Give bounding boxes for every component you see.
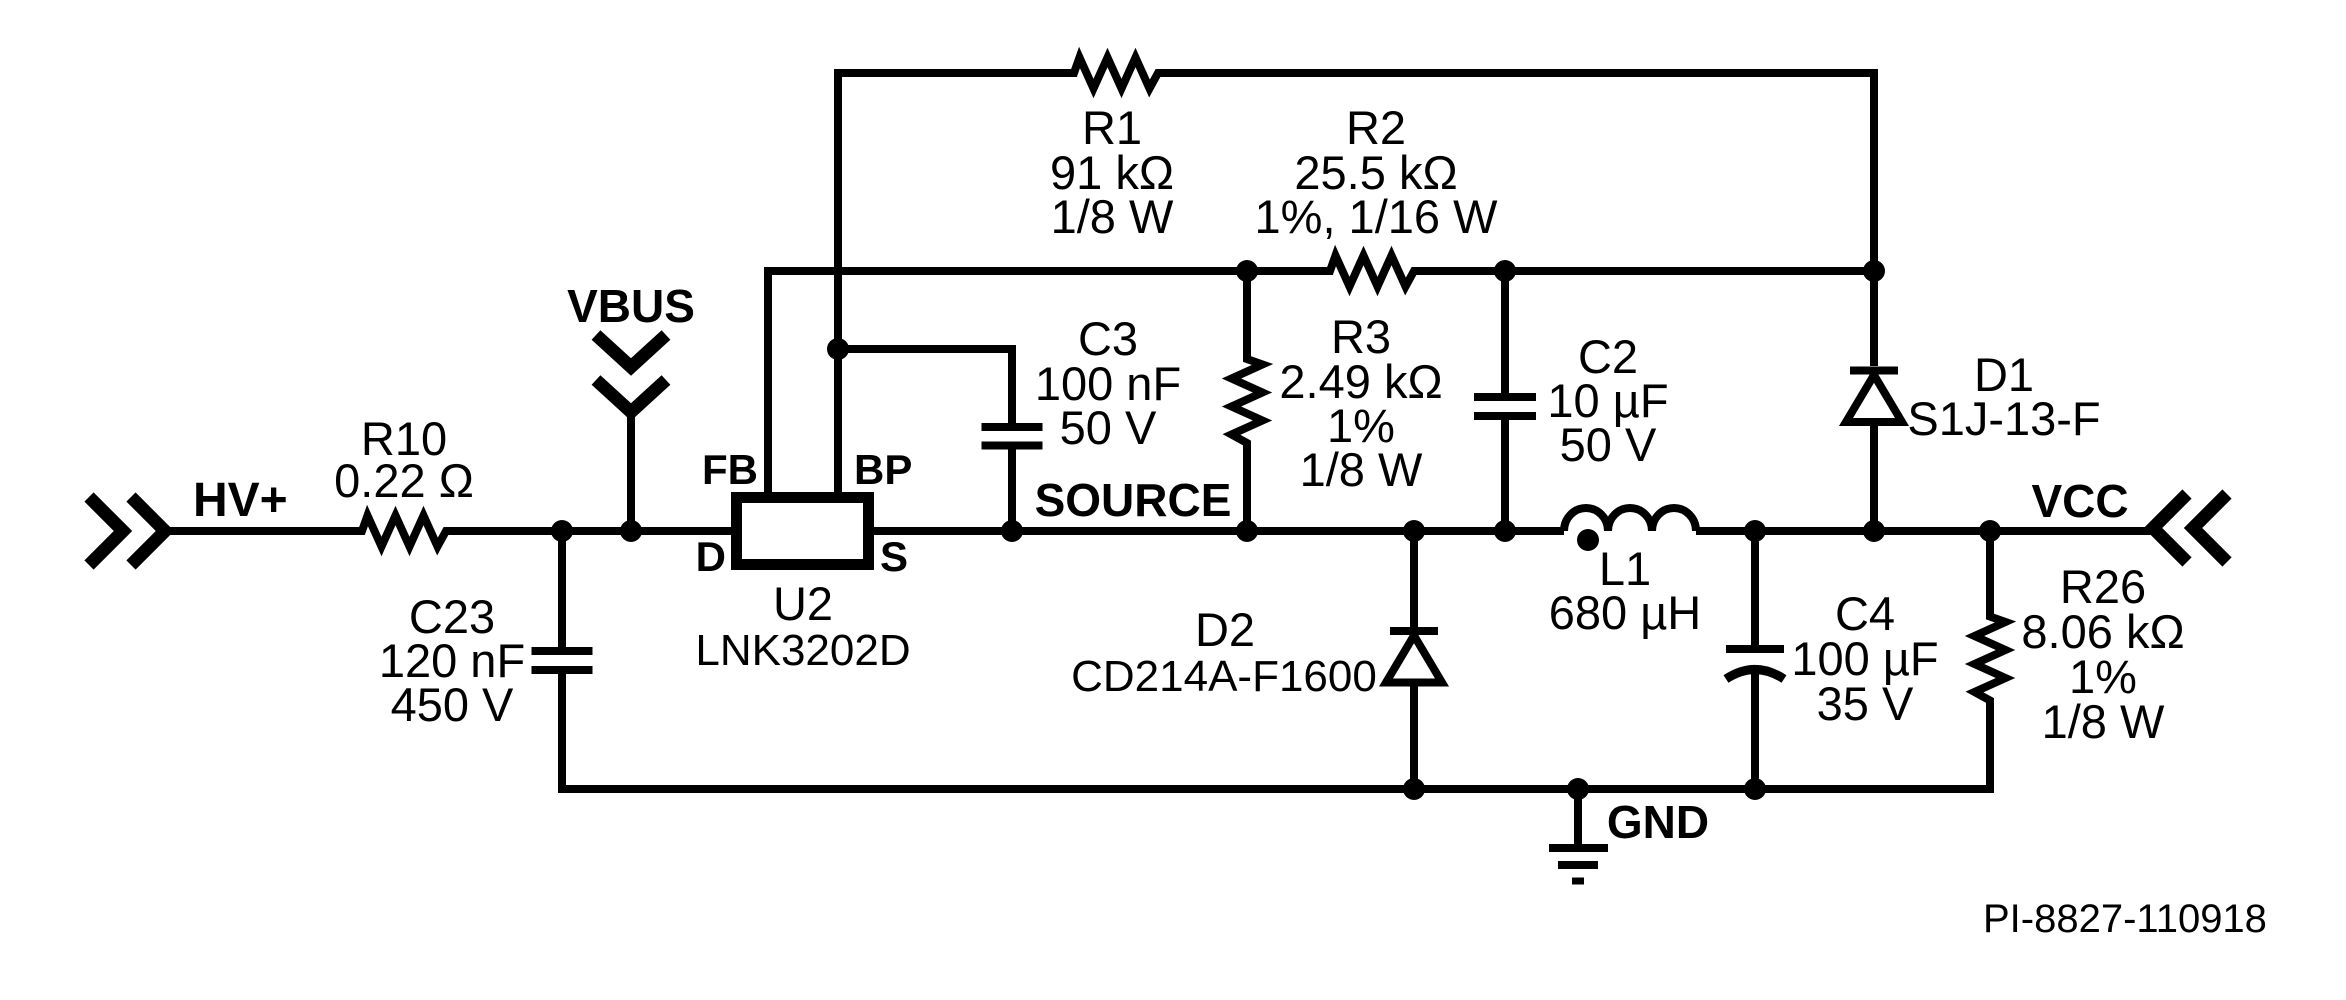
svg-text:0.22 Ω: 0.22 Ω bbox=[334, 454, 474, 507]
node D1 bottom junction bbox=[1863, 520, 1885, 542]
node C4 bottom junction bbox=[1744, 778, 1766, 800]
svg-text:S: S bbox=[880, 533, 908, 580]
node D2 bottom junction bbox=[1403, 778, 1425, 800]
IC U2 LNK3202D body bbox=[737, 498, 869, 565]
wire FB rail right (R2 to D1 node) bbox=[1414, 267, 1874, 275]
svg-text:450 V: 450 V bbox=[391, 678, 514, 731]
svg-text:FB: FB bbox=[702, 446, 758, 493]
resistor R3 bbox=[1232, 357, 1263, 445]
svg-text:BP: BP bbox=[854, 446, 912, 493]
svg-text:PI-8827-110918: PI-8827-110918 bbox=[1983, 897, 2267, 941]
connector VCC output arrows bbox=[2153, 494, 2227, 562]
svg-text:680 µH: 680 µH bbox=[1549, 586, 1702, 639]
wire FB pin and FB rail left (FB to R2) bbox=[768, 271, 1330, 492]
node C2 top junction bbox=[1494, 260, 1516, 282]
svg-text:SOURCE: SOURCE bbox=[1035, 474, 1232, 526]
ground GND symbol bbox=[1549, 789, 1608, 881]
wire D2 anode stem bbox=[1410, 683, 1418, 789]
wire HV+ input to R10 bbox=[168, 527, 362, 535]
node C4 top junction bbox=[1744, 520, 1766, 542]
inductor L1 bbox=[1564, 508, 1696, 531]
svg-text:VBUS: VBUS bbox=[567, 280, 695, 332]
svg-text:GND: GND bbox=[1607, 796, 1709, 848]
svg-text:50 V: 50 V bbox=[1560, 418, 1657, 471]
node R3 bottom junction bbox=[1236, 520, 1258, 542]
svg-text:U2: U2 bbox=[773, 577, 833, 630]
wire VBUS stem bbox=[627, 412, 635, 531]
node VBUS junction bbox=[620, 520, 642, 542]
wire C2 top bbox=[1501, 271, 1509, 397]
wire bottom ground rail bbox=[562, 670, 1990, 789]
svg-text:1%, 1/16 W: 1%, 1/16 W bbox=[1255, 190, 1499, 243]
resistor R10 bbox=[360, 516, 448, 547]
capacitor C3 bbox=[982, 427, 1043, 446]
wire C3 to source node bbox=[1008, 446, 1016, 532]
svg-text:LNK3202D: LNK3202D bbox=[695, 626, 910, 675]
wire C2 bottom bbox=[1501, 416, 1509, 531]
resistor R1 bbox=[1072, 58, 1160, 89]
node D1 top junction bbox=[1863, 260, 1885, 282]
connector HV+ input arrows bbox=[89, 497, 165, 565]
wire source rail (U2 S pin to L1) bbox=[874, 527, 1564, 535]
capacitor C2 bbox=[1474, 397, 1536, 416]
node BP/C3 junction bbox=[827, 338, 849, 360]
node C2 bottom junction bbox=[1494, 520, 1516, 542]
wire BP pin and top rail left (BP to R1) bbox=[838, 73, 1074, 492]
capacitor C23 bbox=[532, 531, 593, 670]
svg-text:1/8 W: 1/8 W bbox=[1051, 190, 1174, 243]
node GND junction bbox=[1567, 778, 1589, 800]
svg-text:35 V: 35 V bbox=[1817, 677, 1914, 730]
node R3 top junction bbox=[1236, 260, 1258, 282]
wire top rail right (R1 to D1 corner) bbox=[1158, 73, 1874, 271]
svg-text:50 V: 50 V bbox=[1060, 401, 1157, 454]
resistor R2 bbox=[1328, 256, 1416, 287]
svg-text:D2: D2 bbox=[1195, 603, 1255, 656]
svg-text:1/8 W: 1/8 W bbox=[1300, 443, 1423, 496]
svg-text:VCC: VCC bbox=[2031, 475, 2128, 527]
svg-text:HV+: HV+ bbox=[193, 474, 288, 527]
svg-text:D: D bbox=[696, 533, 726, 580]
resistor R26 bbox=[1975, 615, 2006, 703]
power VBUS symbol bbox=[596, 335, 666, 412]
wire L1 to VCC bbox=[1696, 527, 2152, 535]
svg-text:S1J-13-F: S1J-13-F bbox=[1907, 392, 2100, 445]
svg-text:1/8 W: 1/8 W bbox=[2042, 695, 2165, 748]
node D2 top junction bbox=[1403, 520, 1425, 542]
wire R26 top bbox=[1986, 531, 1994, 617]
node C23 junction bbox=[551, 520, 573, 542]
capacitor C4 bbox=[1726, 531, 1784, 789]
wire R3 top bbox=[1243, 271, 1251, 359]
svg-text:CD214A-F1600: CD214A-F1600 bbox=[1071, 652, 1377, 701]
wire BP to C3 bbox=[838, 349, 1012, 427]
node C3 source junction bbox=[1001, 520, 1023, 542]
wire R10 to U2 drain bbox=[446, 527, 731, 535]
node R26 top junction bbox=[1979, 520, 2001, 542]
node L1 phase dot bbox=[1577, 529, 1599, 551]
diode D1 bbox=[1846, 271, 1902, 531]
diode D2 bbox=[1386, 531, 1442, 683]
wire R3 bottom bbox=[1243, 443, 1251, 531]
